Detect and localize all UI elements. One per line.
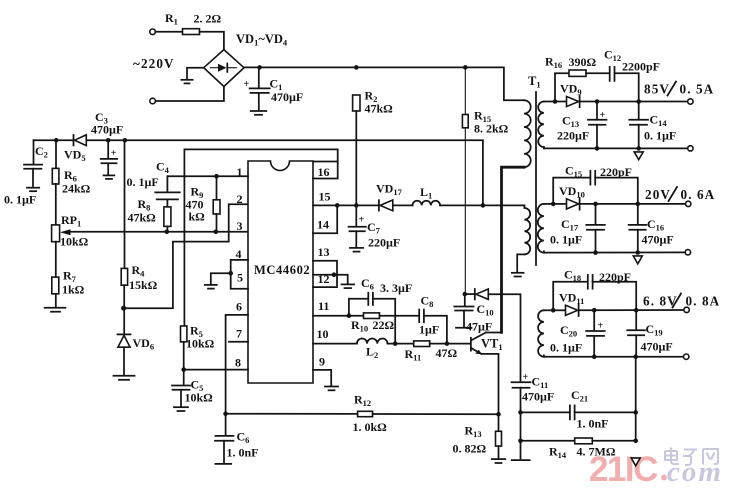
snubber C15 (553, 178, 590, 204)
terminal: AC input bottom (150, 98, 156, 104)
svg-text:16: 16 (318, 165, 330, 179)
transformer secondary winding S3 (538, 310, 544, 356)
svg-text:C20: C20 (560, 323, 577, 339)
svg-text:220µF: 220µF (368, 236, 400, 250)
svg-text:0. 6A: 0. 6A (681, 187, 716, 202)
ground (VD6) (123, 347, 125, 374)
svg-text:47kΩ: 47kΩ (365, 102, 394, 116)
ground (C3) (104, 174, 115, 176)
node: C16 top (636, 202, 641, 207)
ground arrow (bottom right) (631, 458, 640, 466)
svg-text:0. 1µF: 0. 1µF (550, 341, 582, 355)
capacitor C21 (521, 411, 570, 413)
ground (C6) (215, 463, 231, 465)
node: R2/C7 on pin15 line (354, 203, 359, 208)
svg-text:C13: C13 (562, 114, 579, 130)
svg-text:8: 8 (235, 356, 241, 370)
svg-text:R10: R10 (351, 318, 368, 334)
svg-text:C2: C2 (35, 144, 48, 160)
node: C17 top (593, 202, 598, 207)
svg-text:C19: C19 (646, 322, 663, 338)
wire: VD17 to L1 (393, 204, 413, 206)
resistor R1 (183, 29, 200, 35)
wire: 20V bottom rail (544, 251, 685, 253)
node: C14 top (636, 99, 641, 104)
transformer secondary winding S2 (538, 204, 544, 253)
wire: feedback rail (left part to VD5) (34, 139, 74, 141)
svg-text:1. 0kΩ: 1. 0kΩ (353, 420, 388, 434)
svg-text:47kΩ: 47kΩ (128, 211, 157, 225)
wire: pin1 to C4 (167, 175, 248, 177)
svg-text:L1: L1 (420, 185, 432, 201)
svg-text:R1: R1 (165, 11, 178, 27)
node: R5/C5/pin8 (181, 367, 186, 372)
capacitor C5 (3.3uF) bridge (349, 299, 368, 316)
node: C13 top (595, 99, 600, 104)
svg-text:14: 14 (317, 218, 329, 232)
svg-text:10: 10 (317, 327, 329, 341)
wire: collector to primary (486, 332, 502, 334)
node: R6-47k bottom on pin3 line (165, 230, 170, 235)
svg-text:47µF: 47µF (466, 320, 492, 334)
svg-text:VD17: VD17 (376, 182, 403, 198)
resistor R10 (364, 313, 380, 319)
node: R4-VD6 junction (pin2 net) (121, 306, 126, 311)
svg-text:1. 0nF: 1. 0nF (227, 446, 259, 460)
resistor R7 (55, 242, 57, 277)
svg-text:T1: T1 (528, 74, 541, 90)
wire: 20V rail (580, 203, 686, 205)
ground (feedback winding) (517, 254, 524, 271)
svg-text:~220V: ~220V (133, 56, 175, 71)
node: C20 top (592, 308, 597, 313)
capacitor C8 (418, 310, 420, 323)
svg-text:8. 2kΩ: 8. 2kΩ (474, 122, 509, 136)
wire: pin8 line to R5/C5 node (184, 369, 249, 371)
capacitor C7 (355, 205, 357, 225)
svg-text:15: 15 (319, 190, 331, 204)
resistor R6 24k (55, 140, 57, 168)
node: bottom rail dots S2 (593, 250, 598, 255)
wire: R12 line (226, 413, 358, 415)
svg-text:C8: C8 (421, 294, 434, 310)
svg-text:0. 1µF: 0. 1µF (4, 193, 36, 207)
transformer primary winding (524, 100, 531, 167)
wire: pin6 stub (226, 315, 248, 370)
ground (C7) (350, 247, 363, 249)
svg-text:4. 7MΩ: 4. 7MΩ (577, 445, 616, 459)
node: pin5 ground tap (228, 271, 233, 276)
wire: pin12 stub (313, 274, 337, 276)
transformer secondary winding S1 (538, 102, 544, 148)
svg-text:VD6: VD6 (133, 336, 155, 352)
snubber R16/C12 (555, 73, 569, 101)
wire: L1 to feedback winding (440, 204, 524, 206)
svg-text:470µF: 470µF (641, 340, 673, 354)
svg-text:20V: 20V (645, 187, 671, 202)
node: bottom rail dots S3 (592, 354, 597, 359)
inductor L1 (413, 201, 441, 206)
ground (bridge minus) (181, 79, 192, 81)
svg-text:470µF: 470µF (642, 233, 674, 247)
wire: 85V rail (580, 101, 688, 103)
node: feedback rail joins L1 line (481, 203, 486, 208)
ground (pin9) (313, 370, 331, 385)
svg-text:+: + (598, 321, 604, 332)
capacitor C17 (595, 204, 597, 224)
diode VD8 (unlabeled, near C10) (465, 293, 475, 295)
svg-text:VD1~VD4: VD1~VD4 (236, 32, 288, 48)
wire: 6.8V bottom rail (544, 356, 684, 358)
svg-text:0. 1µF: 0. 1µF (644, 129, 676, 143)
capacitor C14 (638, 102, 640, 120)
svg-text:C10: C10 (477, 302, 494, 318)
svg-text:85V: 85V (644, 82, 670, 97)
ground (R13) (492, 458, 506, 460)
wire: main DC rail (244, 67, 524, 100)
node: R4 top (123, 138, 128, 143)
svg-text:3. 3µF: 3. 3µF (380, 281, 412, 295)
node: pin11/C5 bridge (347, 313, 352, 318)
capacitor C1 (258, 67, 260, 87)
wire: bridge left vertex to DC minus ground (187, 68, 204, 79)
ground (C11) (512, 459, 530, 461)
svg-text:C12: C12 (604, 48, 621, 64)
svg-text:R14: R14 (549, 445, 567, 461)
svg-text:VD5: VD5 (64, 148, 86, 164)
bridge rectifier VD1~VD4 (204, 50, 244, 87)
svg-text:1µF: 1µF (419, 323, 439, 337)
wire: R1 to bridge top (200, 32, 224, 50)
svg-text:4: 4 (236, 247, 242, 261)
capacitor C2 (33, 140, 35, 163)
svg-text:0. 82Ω: 0. 82Ω (453, 442, 487, 456)
capacitor C16 (637, 204, 639, 224)
svg-text:0. 8A: 0. 8A (686, 294, 721, 309)
svg-text:R11: R11 (405, 347, 422, 363)
svg-text:VD11: VD11 (559, 291, 584, 307)
ground (C1) (251, 110, 267, 112)
capacitor C20 (593, 310, 595, 330)
ground arrow (section1) (634, 152, 643, 160)
resistor R9 (216, 176, 218, 200)
svg-text:24kΩ: 24kΩ (62, 182, 91, 196)
wire: pin7 stub (229, 341, 248, 343)
resistor R15 (464, 67, 466, 114)
ground (pins 4/5) (211, 273, 231, 283)
svg-text:11: 11 (318, 299, 329, 313)
node: C6/R12 junction (223, 411, 228, 416)
ground (C2) (27, 187, 39, 189)
node: C21 line left (518, 410, 523, 415)
capacitor C3 (107, 140, 109, 158)
svg-text:220pF: 220pF (600, 165, 632, 179)
svg-text:1kΩ: 1kΩ (62, 283, 85, 297)
svg-text:+: + (244, 79, 250, 90)
svg-text:390Ω: 390Ω (569, 55, 597, 69)
node: S1 top / snubber (553, 99, 558, 104)
node: emitter/R12/R13 (496, 412, 501, 417)
svg-text:6: 6 (236, 300, 242, 314)
svg-text:220pF: 220pF (599, 270, 631, 284)
resistor R13 (496, 431, 502, 446)
resistor R11 (388, 343, 414, 345)
node: C19 top (634, 308, 639, 313)
watermark 电子网 glyphs (665, 448, 718, 466)
svg-text:+: + (523, 372, 529, 383)
diode VD11 (553, 309, 565, 311)
wire: top terminal to R1 (155, 31, 182, 33)
svg-text:10kΩ: 10kΩ (186, 337, 215, 351)
resistor R8 47k (164, 207, 171, 227)
node: R14 line left (518, 439, 523, 444)
diode VD9 (555, 101, 567, 103)
node: L2/C5 bridge junction (393, 341, 398, 346)
svg-text:C16: C16 (647, 217, 664, 233)
svg-text:+: + (111, 148, 117, 159)
terminal: 6.8V+ (684, 307, 689, 312)
svg-text:3: 3 (237, 219, 243, 233)
node: C8/base junction (445, 341, 450, 346)
wire: feedback rail (VD5 to transformer) (86, 140, 483, 205)
svg-text:2: 2 (237, 192, 243, 206)
op-amp U1 MC44602 body (248, 161, 313, 383)
svg-text:VT1: VT1 (481, 337, 503, 353)
svg-text:RP1: RP1 (61, 213, 81, 229)
wire: RP1 wiper to pin 3 (68, 231, 248, 233)
node: S2 top (551, 202, 556, 207)
ground (C5) (174, 406, 188, 408)
svg-text:R13: R13 (465, 424, 482, 440)
svg-text:C7: C7 (367, 220, 381, 236)
node: R9 top (214, 174, 219, 179)
svg-text:2200pF: 2200pF (622, 60, 660, 74)
svg-text:220µF: 220µF (557, 129, 589, 143)
terminal: 6.8V- (684, 354, 689, 359)
svg-text:5: 5 (237, 271, 243, 285)
svg-text:R16: R16 (545, 55, 562, 71)
node: C3 top (106, 138, 111, 143)
svg-text:0. 1µF: 0. 1µF (127, 175, 159, 189)
svg-text:VD9: VD9 (560, 82, 582, 98)
terminal: 20V+ (686, 201, 691, 206)
svg-text:C15: C15 (565, 164, 582, 180)
terminal: 20V- (685, 250, 690, 255)
node: R9 bottom on pin3 line (214, 230, 219, 235)
wiper arrow RP1 (60, 229, 71, 235)
capacitor C13 (596, 102, 598, 119)
svg-text:10kΩ: 10kΩ (60, 235, 89, 249)
node: pin14 tie (335, 203, 340, 208)
wire: section3 down to R14 (635, 357, 637, 441)
terminal: AC input top (150, 29, 156, 35)
svg-text:9: 9 (319, 355, 325, 369)
svg-text:0. 5A: 0. 5A (680, 82, 715, 97)
wire: pin 2 net (124, 204, 248, 308)
svg-text:470µF: 470µF (522, 390, 554, 404)
svg-text:470µF: 470µF (91, 123, 123, 137)
wire: 6.8V rail (579, 309, 684, 311)
potentiometer RP1 (55, 184, 57, 225)
node: bottom rail dots S1 (595, 146, 600, 151)
ground arrow (section2) (633, 256, 642, 264)
svg-text:C18: C18 (564, 268, 581, 284)
svg-text:R4: R4 (132, 263, 146, 279)
node: pin12 ground tap (332, 272, 337, 277)
svg-text:15kΩ: 15kΩ (129, 278, 158, 292)
node: C1 junction (257, 65, 262, 70)
svg-text:C21: C21 (571, 388, 588, 404)
svg-text:47Ω: 47Ω (436, 346, 458, 360)
resistor R4 (124, 140, 126, 268)
svg-text:MC44602: MC44602 (254, 263, 310, 277)
svg-text:C11: C11 (532, 375, 549, 391)
wire: pin10 line (313, 343, 357, 345)
diode VD17 (378, 200, 380, 210)
svg-text:C6: C6 (237, 430, 250, 446)
svg-text:L2: L2 (366, 345, 378, 361)
svg-text:C17: C17 (561, 217, 579, 233)
diode VD5 (73, 135, 75, 145)
wire: pin16 net (313, 161, 338, 163)
capacitor C4 (166, 176, 168, 191)
svg-text:C6: C6 (361, 276, 374, 292)
wire: 85V bottom rail (544, 147, 688, 149)
node: S3 top (551, 308, 556, 313)
diode VD6 (118, 333, 131, 335)
svg-text:0. 1µF: 0. 1µF (550, 233, 582, 247)
resistor R5 (181, 326, 187, 342)
inductor L2 (357, 339, 388, 344)
wire: VD8 to C11 vertical (488, 294, 520, 381)
capacitor C5 (10k) (183, 370, 185, 385)
ground (R7) (55, 294, 57, 306)
ground (C10) (456, 327, 472, 329)
node: C10/VD8/R15 junction (463, 292, 468, 297)
terminal: 85V+ (688, 99, 693, 104)
resistor R12 (358, 411, 373, 416)
node: R15 junction (463, 65, 468, 70)
svg-text:2. 2Ω: 2. 2Ω (194, 12, 222, 26)
wire: emitter down (481, 354, 498, 431)
capacitor C6 (215, 435, 233, 437)
svg-text:C14: C14 (650, 113, 668, 129)
transformer core (535, 92, 537, 265)
wire: pin11 line (313, 315, 364, 317)
transistor VT1 (470, 338, 472, 351)
pin 4/5 bracket (231, 260, 248, 289)
capacitor C19 (635, 310, 637, 329)
svg-text:kΩ: kΩ (189, 210, 206, 224)
svg-text:+: + (359, 215, 365, 226)
wire: primary bottom to collector (502, 167, 525, 332)
wire: bottom terminal to bridge bottom (155, 87, 224, 102)
svg-text:VD10: VD10 (559, 184, 585, 200)
svg-text:1. 0nF: 1. 0nF (577, 417, 609, 431)
svg-text:R12: R12 (354, 393, 371, 409)
svg-text:C4: C4 (156, 160, 170, 176)
node: R8 chain top (54, 138, 59, 143)
wire: pin14 tie to pin15 (313, 205, 337, 233)
terminal: 85V- (688, 146, 693, 151)
capacitor C10 (464, 294, 466, 305)
node: R2 junction (354, 65, 359, 70)
watermark 21IC (589, 450, 723, 489)
ground (pins 12/13) (337, 275, 348, 283)
resistor R14 (521, 440, 575, 442)
wire: pin15 line (313, 204, 379, 206)
svg-text:13: 13 (318, 245, 330, 259)
svg-text:470µF: 470µF (271, 90, 303, 104)
transformer feedback winding (524, 205, 530, 254)
svg-text:22Ω: 22Ω (373, 318, 395, 332)
resistor R2 (353, 95, 360, 111)
svg-text:10kΩ: 10kΩ (185, 391, 214, 405)
node: C21/R14 right junctions (633, 410, 638, 415)
diode VD10 (553, 203, 566, 205)
pin 12/13 bracket (313, 261, 337, 287)
snubber C18 (553, 282, 587, 311)
wire: pins6/8 vertical down to R12 line (225, 370, 227, 435)
svg-text:7: 7 (236, 327, 242, 341)
